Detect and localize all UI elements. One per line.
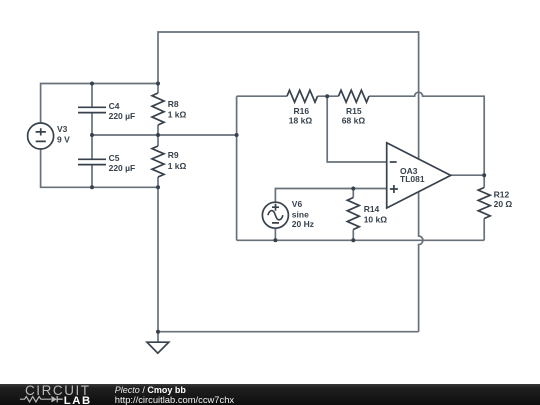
svg-text:18 kΩ: 18 kΩ: [289, 115, 313, 125]
label V3 value: [57, 124, 70, 144]
svg-text:sine: sine: [292, 209, 309, 219]
svg-text:220 µF: 220 µF: [109, 111, 136, 121]
svg-text:R12: R12: [494, 190, 510, 200]
label R15 value: [342, 106, 366, 125]
resistor R9: [152, 146, 164, 177]
svg-text:1 kΩ: 1 kΩ: [168, 161, 187, 171]
wire R12 leads: [483, 175, 485, 240]
label R12 value: [494, 190, 513, 210]
label R9 value: [168, 150, 187, 171]
voltage source V6: [262, 202, 288, 228]
wire node-A vertical x=236.6 down to bottom rail: [236, 96, 238, 240]
wire C4/C5 vertical branch x=92: [91, 84, 93, 188]
capacitor C5: [78, 159, 106, 164]
footer title and url: [115, 385, 186, 395]
svg-text:V3: V3: [57, 124, 68, 134]
svg-text:R14: R14: [364, 204, 380, 214]
voltage source V3: [28, 123, 54, 149]
wire V3 left branch (top rail y=83.5, bottom rail y=187.3): [41, 84, 158, 188]
resistor R16: [287, 90, 318, 102]
svg-text:10 kΩ: 10 kΩ: [364, 214, 388, 224]
wire negative supply with hop over bottom rail: [419, 192, 423, 332]
wire op-amp output: [451, 174, 485, 176]
wire ground stub: [157, 332, 159, 343]
resistor R15: [339, 90, 370, 102]
wire non-inverting input rail y=188.5: [275, 189, 386, 203]
label V6 value: [292, 199, 314, 229]
resistor R14: [347, 198, 359, 230]
label R16 value: [289, 106, 313, 125]
wire R15 right lead with hop over supply, to output node: [369, 92, 484, 175]
svg-text:220 µF: 220 µF: [109, 163, 136, 173]
wire ground rail y=331.7: [158, 331, 419, 333]
footer bar: [0, 384, 540, 405]
svg-text:R9: R9: [168, 150, 179, 160]
svg-text:C5: C5: [109, 153, 120, 163]
capacitor C4: [78, 107, 106, 112]
CircuitLab logo: [0, 384, 110, 405]
label R14 value: [364, 204, 388, 224]
svg-text:68 kΩ: 68 kΩ: [342, 115, 366, 125]
wire mid rail y=135: [92, 134, 237, 136]
wire bottom rail y=240.3: [237, 239, 485, 241]
wire R8/R9 vertical branch x=158: [157, 84, 159, 332]
resistor R12: [478, 188, 490, 219]
svg-text:9 V: 9 V: [57, 134, 70, 144]
svg-text:1 kΩ: 1 kΩ: [168, 109, 187, 119]
svg-text:LAB: LAB: [64, 395, 92, 405]
label C4 value: [109, 101, 136, 121]
svg-text:C4: C4: [109, 101, 120, 111]
resistor R8: [152, 93, 164, 125]
label R8 value: [168, 99, 187, 119]
svg-text:V6: V6: [292, 199, 303, 209]
svg-text:20 Ω: 20 Ω: [494, 199, 513, 209]
wire feedback to inverting input: [327, 96, 387, 162]
op-amp OA3: [387, 143, 451, 208]
wire R16 left lead: [237, 95, 287, 97]
junction nodes: [90, 82, 486, 334]
svg-text:R8: R8: [168, 99, 179, 109]
label OA3 value: [400, 166, 425, 184]
svg-text:20 Hz: 20 Hz: [292, 219, 314, 229]
wire R16-R15 junction link: [318, 95, 339, 97]
svg-text:TL081: TL081: [400, 174, 425, 184]
wire V6 bottom lead: [274, 228, 276, 240]
wire top supply rail: [158, 32, 419, 159]
label C5 value: [109, 153, 136, 173]
wire R14 leads: [352, 189, 354, 241]
ground: [147, 342, 169, 353]
